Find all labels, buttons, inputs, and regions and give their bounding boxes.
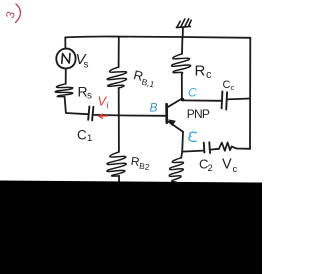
svg-text:s: s (84, 60, 89, 71)
svg-text:PNP: PNP (187, 107, 210, 121)
svg-text:1: 1 (87, 133, 92, 144)
svg-text:C: C (77, 128, 87, 143)
svg-text:B2: B2 (139, 161, 151, 172)
svg-text:2: 2 (208, 163, 213, 174)
svg-text:i: i (107, 101, 109, 111)
svg-text:V: V (222, 157, 232, 173)
svg-text:c: c (231, 83, 235, 92)
svg-text:c: c (233, 164, 238, 175)
svg-text:R: R (195, 63, 206, 80)
svg-text:c: c (206, 69, 212, 81)
svg-text:s: s (87, 91, 92, 102)
svg-text:B: B (150, 101, 158, 115)
svg-text:C: C (223, 79, 231, 91)
svg-text:C: C (188, 86, 197, 100)
